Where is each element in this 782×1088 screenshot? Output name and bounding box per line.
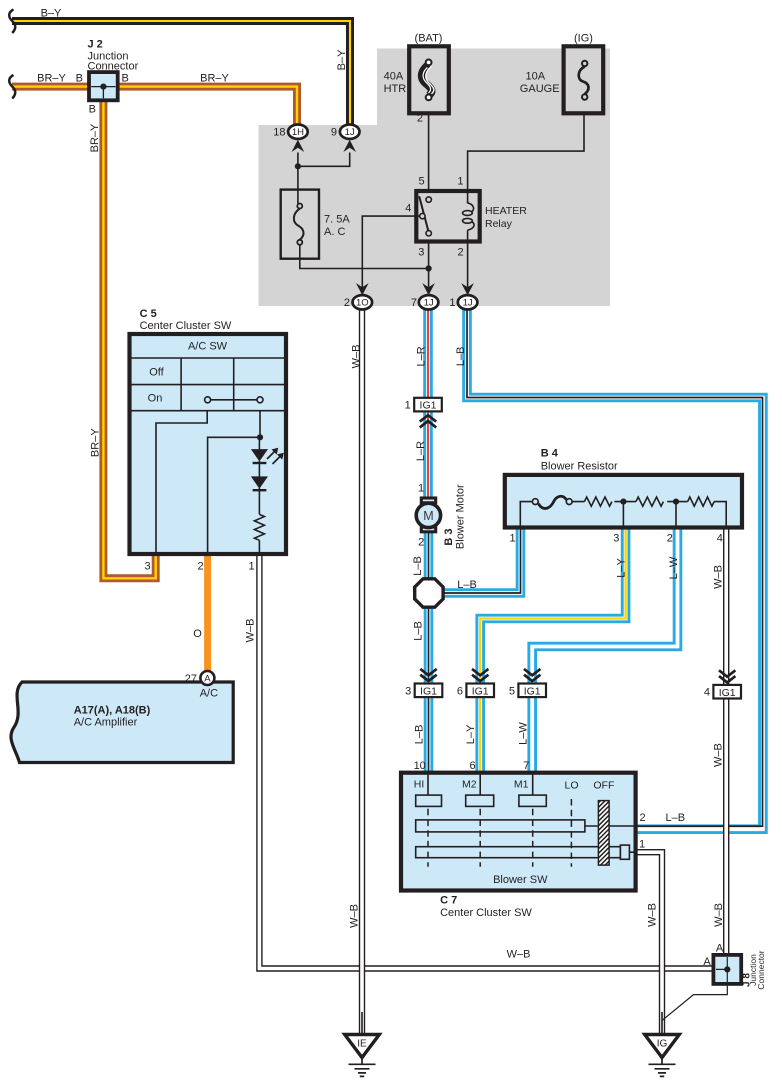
svg-text:(IG): (IG) <box>574 33 593 45</box>
svg-text:2: 2 <box>639 812 645 824</box>
svg-text:4: 4 <box>717 533 723 545</box>
svg-text:IG1: IG1 <box>420 400 437 412</box>
junction connector J8 <box>713 955 741 984</box>
connector 1O pin2 <box>353 295 373 309</box>
svg-text:7. 5A: 7. 5A <box>324 214 350 226</box>
svg-text:B–Y: B–Y <box>41 8 62 20</box>
svg-text:2: 2 <box>344 297 350 309</box>
connector 3-IG1 <box>405 669 442 698</box>
wire BR-Y from J2 down to A/C switch pin3 <box>103 100 155 578</box>
svg-text:BR–Y: BR–Y <box>89 123 101 152</box>
wire 7.5A fuse to relay pin3 junction <box>300 245 429 269</box>
svg-text:GAUGE: GAUGE <box>520 83 560 95</box>
svg-text:(BAT): (BAT) <box>415 33 443 45</box>
wire W-B wire resistor pin4 through 4-IG1 to J8 <box>723 528 729 955</box>
connector 1-IG1 <box>405 398 442 428</box>
node C5 LED junction <box>257 434 263 440</box>
svg-text:2: 2 <box>457 247 463 259</box>
wire L-B wire octagon to blower resistor pin1 <box>442 528 521 593</box>
svg-text:1H: 1H <box>292 127 304 138</box>
wire J8 to ground IG tail <box>662 984 727 1021</box>
wire BR-Y left feed to junction J2 <box>12 87 297 125</box>
svg-text:A: A <box>716 943 724 955</box>
svg-text:OFF: OFF <box>593 780 614 792</box>
svg-text:IG: IG <box>657 1039 668 1050</box>
svg-text:IG1: IG1 <box>472 685 489 697</box>
svg-text:3: 3 <box>418 247 424 259</box>
svg-text:HI: HI <box>414 779 425 791</box>
svg-text:BR–Y: BR–Y <box>37 72 66 84</box>
svg-text:W–B: W–B <box>713 903 725 927</box>
svg-text:5: 5 <box>509 685 515 697</box>
LED D2 <box>251 476 268 488</box>
wire C5 internal to pin3 <box>156 411 207 553</box>
svg-text:L–B: L–B <box>414 725 426 745</box>
svg-text:10A: 10A <box>526 71 546 83</box>
switch C5 A/C SW box <box>130 334 287 554</box>
wire W-B wire A/C switch pin1 to junction J8 <box>259 556 713 969</box>
svg-text:L–R: L–R <box>415 441 427 461</box>
LED light arrows <box>267 448 284 464</box>
A/C amplifier box A17/A18 <box>11 682 233 763</box>
svg-text:2: 2 <box>197 561 203 573</box>
svg-text:2: 2 <box>418 536 424 548</box>
svg-text:LO: LO <box>564 780 578 792</box>
wire relay pin5 to 40A fuse <box>428 113 430 190</box>
fuse 10A GAUGE <box>564 46 604 113</box>
wire C5 internal to pin2 <box>208 411 260 553</box>
svg-text:1O: 1O <box>356 298 369 309</box>
svg-text:BR–Y: BR–Y <box>90 428 102 457</box>
wire L-B wire blower motor to octagon connector <box>424 533 434 580</box>
svg-text:C 7: C 7 <box>440 895 457 907</box>
svg-text:HTR: HTR <box>384 83 407 95</box>
svg-text:BR–Y: BR–Y <box>200 72 229 84</box>
svg-text:IE: IE <box>357 1039 367 1050</box>
fuse 7.5A A.C <box>281 190 319 259</box>
svg-text:A17(A), A18(B): A17(A), A18(B) <box>74 705 151 717</box>
svg-text:40A: 40A <box>384 71 404 83</box>
svg-text:IG1: IG1 <box>719 687 736 699</box>
svg-text:3: 3 <box>144 561 150 573</box>
svg-text:2: 2 <box>667 533 673 545</box>
svg-text:Center Cluster SW: Center Cluster SW <box>140 320 232 332</box>
svg-text:L–B: L–B <box>412 556 424 576</box>
svg-text:A/C SW: A/C SW <box>188 341 228 353</box>
svg-text:HEATER: HEATER <box>485 205 527 217</box>
arrow into 1O <box>356 283 369 295</box>
wire W-B wire connector 1O to ground IE <box>359 309 365 1035</box>
wire relay pin1 to 10A fuse <box>468 113 584 190</box>
svg-text:Blower Motor: Blower Motor <box>455 484 467 549</box>
relay HEATER <box>416 191 479 242</box>
svg-text:1J: 1J <box>424 298 434 309</box>
junction connector J2 <box>89 72 118 100</box>
svg-text:W–B: W–B <box>507 949 531 961</box>
svg-text:7: 7 <box>411 297 417 309</box>
svg-text:W–B: W–B <box>713 743 725 767</box>
wire-break squiggle B-Y <box>9 10 15 34</box>
svg-text:A/C: A/C <box>200 688 218 700</box>
svg-text:Blower Resistor: Blower Resistor <box>541 461 618 473</box>
svg-text:1: 1 <box>457 176 463 188</box>
svg-text:B: B <box>122 73 129 85</box>
svg-text:6: 6 <box>469 760 475 772</box>
arrow into 1H <box>292 140 305 152</box>
octagon in-line connector <box>415 579 443 607</box>
svg-text:W–B: W–B <box>713 565 725 589</box>
svg-text:2: 2 <box>417 113 423 125</box>
wire L-B wire octagon through 3-IG1 to blower switch HI <box>424 606 434 774</box>
wire L-B 1-1J to blower switch pin2 <box>467 309 763 829</box>
wire L-W wire resistor pin2 through 5-IG1 to blower switch M1 <box>532 528 677 774</box>
svg-text:3: 3 <box>613 533 619 545</box>
svg-text:L–Y: L–Y <box>465 724 477 744</box>
arrow into 1J-1 <box>461 283 474 295</box>
wire C5 LED chain <box>258 437 260 553</box>
wire relay pin4 to connector 2-1O <box>362 216 415 294</box>
svg-text:IG1: IG1 <box>420 685 437 697</box>
svg-text:L–B: L–B <box>413 621 425 641</box>
connector 1H pin18 <box>288 125 308 139</box>
resistor in C5 <box>254 514 264 540</box>
svg-text:18: 18 <box>273 127 285 139</box>
svg-text:A/C Amplifier: A/C Amplifier <box>74 717 138 729</box>
svg-text:5: 5 <box>418 176 424 188</box>
wire O wire A/C switch pin2 to A/C amplifier <box>204 556 211 671</box>
wire-break squiggle BR-Y <box>9 75 15 99</box>
resistor B4 blower resistor box <box>505 475 742 528</box>
svg-text:L–W: L–W <box>668 556 680 579</box>
wire L-R wire 7-1J to IG1 to blower motor <box>423 309 433 497</box>
svg-text:Blower SW: Blower SW <box>493 874 548 886</box>
connector 1J pin1 <box>458 295 478 309</box>
ground IE <box>345 1035 380 1077</box>
connector 1J pin7 <box>419 295 439 309</box>
svg-text:1: 1 <box>405 400 411 412</box>
LED D1 <box>251 449 268 461</box>
connector 5-IG1 <box>509 669 546 698</box>
svg-text:A: A <box>204 674 211 685</box>
svg-text:B 4: B 4 <box>541 448 559 460</box>
svg-text:W–B: W–B <box>349 904 361 928</box>
switch C7 blower switch box <box>401 773 692 891</box>
connector A 27 <box>200 671 214 685</box>
svg-text:IG1: IG1 <box>524 685 541 697</box>
node junction 1H/1J <box>295 163 301 169</box>
svg-text:B 3: B 3 <box>443 528 455 545</box>
fuse 40A HTR <box>409 46 449 113</box>
svg-text:M: M <box>423 509 433 523</box>
svg-text:O: O <box>193 628 202 640</box>
arrow into 1J-7 <box>422 283 435 295</box>
connector 6-IG1 <box>457 669 494 698</box>
arrow into 1J-9 <box>343 140 356 152</box>
svg-text:4: 4 <box>704 687 710 699</box>
wire relay pin2 to connector 1-1J <box>467 244 469 295</box>
svg-text:A: A <box>703 956 711 968</box>
wire B-Y battery feed <box>12 21 350 125</box>
svg-text:W–B: W–B <box>647 903 659 927</box>
ground IG <box>645 1035 680 1077</box>
svg-text:Connector: Connector <box>88 61 139 73</box>
svg-text:M1: M1 <box>514 779 529 791</box>
svg-text:Center Cluster SW: Center Cluster SW <box>440 907 532 919</box>
svg-text:M2: M2 <box>462 779 477 791</box>
svg-text:4: 4 <box>405 203 411 215</box>
svg-text:Off: Off <box>149 367 164 379</box>
svg-text:9: 9 <box>331 127 337 139</box>
svg-text:7: 7 <box>523 760 529 772</box>
svg-text:1: 1 <box>248 561 254 573</box>
svg-text:B: B <box>76 73 83 85</box>
svg-text:J 2: J 2 <box>88 39 103 51</box>
svg-text:C 5: C 5 <box>140 308 157 320</box>
node junction fuse/relay3 <box>426 265 432 271</box>
wire L-Y wire resistor pin3 through 6-IG1 to blower switch M2 <box>480 528 625 774</box>
svg-text:L–R: L–R <box>416 346 428 366</box>
svg-text:A. C: A. C <box>324 226 345 238</box>
svg-text:L–B: L–B <box>457 579 477 591</box>
svg-text:On: On <box>148 393 163 405</box>
svg-text:6: 6 <box>457 685 463 697</box>
wire 1H/1J to 7.5A fuse <box>298 153 350 204</box>
gray junction-block panel <box>259 49 611 307</box>
wire relay pin3 to connector 7-1J <box>428 244 430 295</box>
connector 1J pin9 <box>340 125 360 139</box>
svg-text:1: 1 <box>449 297 455 309</box>
svg-text:L–B: L–B <box>666 812 686 824</box>
svg-text:Connector: Connector <box>756 950 766 989</box>
wire W-B wire blower switch pin1 to ground IG <box>636 852 662 1034</box>
svg-text:10: 10 <box>414 760 426 772</box>
svg-text:L–B: L–B <box>455 347 467 367</box>
svg-text:27: 27 <box>185 673 197 685</box>
svg-text:1: 1 <box>639 839 645 851</box>
svg-text:1: 1 <box>509 533 515 545</box>
svg-text:L–W: L–W <box>518 722 530 745</box>
svg-text:1: 1 <box>418 483 424 495</box>
svg-text:B–Y: B–Y <box>336 49 348 70</box>
svg-text:B: B <box>89 104 96 116</box>
svg-text:1J: 1J <box>345 127 355 138</box>
switch contact On row <box>211 399 257 401</box>
motor B3 blower motor <box>416 498 440 532</box>
svg-text:3: 3 <box>405 685 411 697</box>
svg-text:1J: 1J <box>463 298 473 309</box>
wire ground IE stem <box>361 1012 363 1035</box>
svg-text:L–Y: L–Y <box>616 558 628 578</box>
connector 4-IG1 <box>704 670 741 699</box>
svg-text:W–B: W–B <box>351 344 363 368</box>
wire ground IG stem <box>661 1012 663 1035</box>
OFF hatched slider <box>598 801 609 866</box>
svg-text:Relay: Relay <box>485 218 513 230</box>
svg-text:W–B: W–B <box>245 619 257 643</box>
